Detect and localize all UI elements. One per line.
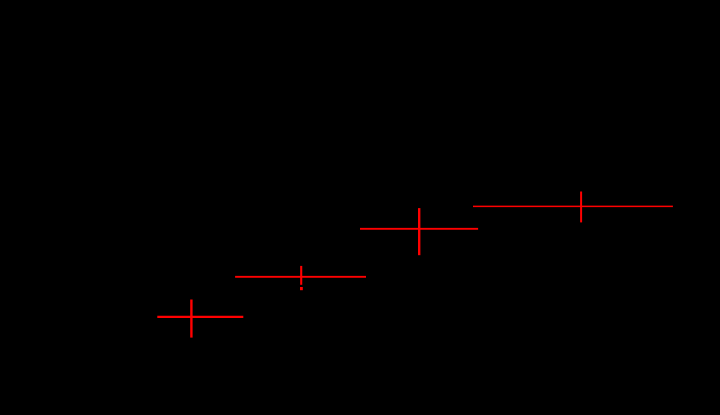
data point 3 y-error bar [418,208,420,255]
data point 1 x-error bar [157,316,243,318]
data point 2 lower cap dot [300,287,303,290]
data point 2 x-error bar [235,276,366,278]
data point 3 x-error bar [360,228,478,230]
data point 1 y-error bar [190,300,192,338]
data point 4 y-error bar [580,192,582,223]
data point 4 x-error bar [473,205,673,207]
data point 2 y-error bar [300,266,302,285]
